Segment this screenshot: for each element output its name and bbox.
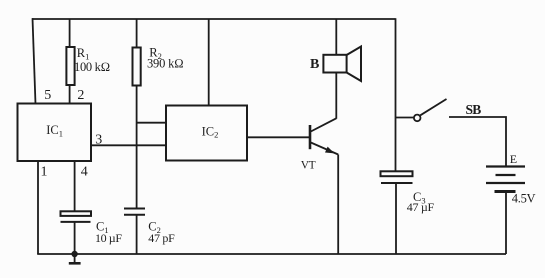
op-amp U2 IC2 box [166, 106, 247, 161]
wire IC1 pin 3 to IC2 lower input [91, 144, 166, 146]
battery E [486, 167, 525, 192]
label VT [301, 159, 316, 171]
svg-text:IC2: IC2 [202, 124, 219, 139]
wire IC1 pin 4 down to C1 [74, 161, 76, 211]
label IC2 [202, 124, 219, 139]
transistor Q1 VT [310, 118, 338, 154]
wire bottom rail [37, 253, 506, 255]
label C2 [148, 220, 161, 236]
pin 4 label [81, 165, 88, 180]
pin 2 label [77, 88, 84, 103]
label C3 [413, 190, 426, 206]
svg-text:2: 2 [77, 88, 84, 103]
ground [69, 254, 81, 263]
label 390 kΩ [147, 56, 184, 70]
wire R2 node to IC2 upper input [137, 122, 166, 124]
svg-text:SB: SB [466, 102, 482, 117]
wire R2 top lead [136, 19, 138, 48]
pin 3 label [95, 132, 102, 147]
wire C2 to bottom rail [136, 215, 138, 254]
svg-text:4.5V: 4.5V [512, 192, 536, 206]
wire IC2 top feed [208, 19, 210, 106]
wire C1 to bottom rail [74, 222, 76, 254]
label 4.5V [512, 192, 536, 206]
op-amp U1 IC1 box [18, 104, 92, 162]
wire R1 top lead [69, 19, 71, 48]
wire battery to bottom rail [505, 192, 507, 255]
label B [310, 57, 319, 72]
junction dot C1 ground node [71, 251, 77, 257]
wire right vertical from top rail to C3 [395, 18, 397, 171]
capacitor C2 [124, 209, 145, 215]
pin 1 label [41, 165, 48, 180]
svg-text:IC1: IC1 [46, 123, 63, 138]
wire C3 to bottom rail [395, 183, 397, 254]
label C1 [96, 220, 109, 236]
capacitor C1 [61, 211, 92, 222]
wire speaker collector vertical [335, 19, 337, 119]
wire IC2 output to transistor base [247, 136, 310, 138]
label R1 [77, 46, 90, 62]
svg-text:B: B [310, 57, 319, 72]
svg-text:390 kΩ: 390 kΩ [147, 56, 184, 70]
capacitor C3 [381, 171, 413, 183]
svg-text:VT: VT [301, 159, 316, 171]
wire emitter down to bottom rail [337, 155, 339, 255]
wire left vertical to IC1 pin 5 [33, 18, 36, 104]
switch SB [396, 99, 447, 121]
label 47 µF [407, 200, 435, 214]
svg-text:47 µF: 47 µF [407, 200, 435, 214]
speaker B [323, 47, 361, 82]
svg-text:4: 4 [81, 165, 88, 180]
wire R1 bottom lead to IC1 pin 2 [69, 85, 71, 104]
wire top rail [32, 18, 396, 20]
label R2 [149, 46, 162, 62]
label IC1 [46, 123, 63, 138]
svg-text:E: E [510, 152, 517, 166]
wire R2 bottom lead down to C2 [136, 86, 138, 209]
svg-text:5: 5 [44, 88, 51, 103]
svg-text:100 kΩ: 100 kΩ [74, 60, 110, 74]
resistor R2 [133, 48, 141, 86]
resistor R1 [66, 47, 74, 85]
svg-text:47 pF: 47 pF [148, 231, 175, 245]
label 47 pF [148, 231, 175, 245]
label E [510, 152, 517, 166]
svg-text:10 µF: 10 µF [95, 231, 122, 245]
label 10 µF [95, 231, 122, 245]
label 100 kΩ [74, 60, 110, 74]
wire IC1 pin 1 down [37, 161, 39, 254]
svg-text:1: 1 [41, 165, 48, 180]
wire switch to battery top [449, 117, 506, 167]
pin 5 label [44, 88, 51, 103]
label SB [466, 102, 482, 117]
